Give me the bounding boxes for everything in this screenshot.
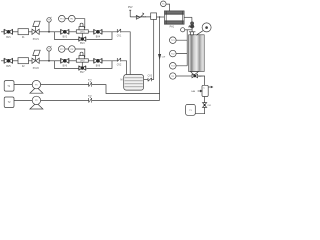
svg-text:CV1: CV1 [117,35,122,37]
svg-text:F1: F1 [22,37,25,39]
svg-text:BV4: BV4 [96,36,101,38]
svg-text:PCV1: PCV1 [33,39,40,41]
svg-text:TI1: TI1 [171,76,174,78]
svg-text:VV1: VV1 [207,105,212,107]
svg-text:PI: PI [48,49,50,51]
svg-text:BV6: BV6 [63,65,68,67]
svg-text:BV3: BV3 [80,43,85,45]
svg-text:PI2: PI2 [70,49,73,51]
svg-text:BV2: BV2 [63,36,68,38]
svg-text:BV8: BV8 [96,65,101,67]
svg-text:TC1: TC1 [171,40,175,42]
svg-text:M: M [121,80,123,82]
svg-text:PCV2: PCV2 [33,68,40,70]
svg-text:TC2: TC2 [171,53,175,55]
svg-text:CW: CW [162,56,165,58]
svg-text:F2: F2 [22,66,25,68]
svg-text:P2: P2 [35,100,37,102]
svg-text:PSV: PSV [128,7,133,9]
svg-text:PT2: PT2 [60,49,63,51]
svg-text:PI: PI [48,20,50,22]
svg-text:CFV1: CFV1 [80,32,85,34]
svg-text:PT1: PT1 [60,19,63,21]
svg-text:PH1: PH1 [170,27,175,29]
svg-text:BV1: BV1 [6,37,11,39]
svg-text:CV2: CV2 [117,64,122,66]
svg-text:CA6: CA6 [191,90,196,93]
svg-text:BV7: BV7 [80,72,85,74]
svg-text:CFV2: CFV2 [80,61,85,63]
svg-text:CV3: CV3 [148,75,153,77]
svg-text:TC3: TC3 [171,66,175,68]
svg-text:SV1: SV1 [88,80,93,82]
svg-text:SV2: SV2 [88,95,93,97]
svg-text:P1: P1 [35,84,37,86]
svg-text:PI1: PI1 [70,19,73,21]
svg-text:BV5: BV5 [6,66,11,68]
svg-text:PSV1: PSV1 [142,17,147,19]
